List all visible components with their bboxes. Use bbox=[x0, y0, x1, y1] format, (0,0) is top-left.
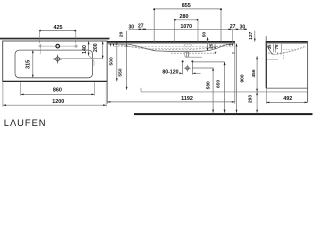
svg-text:1070: 1070 bbox=[181, 24, 193, 30]
dim 293 (vertical) bbox=[248, 92, 259, 113]
svg-text:855: 855 bbox=[182, 3, 191, 9]
dim 127 (right, vertical) bbox=[248, 31, 256, 42]
wall line (thick) bbox=[0, 38, 110, 40]
dim 425 bbox=[39, 25, 76, 43]
dim 650 (vertical) bbox=[216, 62, 226, 113]
svg-text:1192: 1192 bbox=[181, 96, 193, 102]
dashed inner contour 2 bbox=[115, 45, 229, 49]
outlet range verticals with dots bbox=[182, 60, 225, 74]
dim 1200 bbox=[3, 82, 106, 106]
svg-text:900: 900 bbox=[240, 74, 246, 82]
dashed siphon line + arrow bbox=[171, 52, 215, 54]
svg-text:25: 25 bbox=[208, 43, 214, 49]
top edge (thick) bbox=[107, 41, 235, 43]
svg-text:650: 650 bbox=[216, 80, 222, 88]
dim 50 (vertical at bowl) bbox=[201, 32, 208, 51]
dim 855 bbox=[153, 3, 222, 41]
rim bottom line bbox=[107, 43, 234, 45]
floor line (thick) bbox=[134, 113, 313, 115]
svg-text:280: 280 bbox=[180, 14, 189, 20]
dashed lines inside bbox=[283, 49, 295, 51]
svg-text:550: 550 bbox=[118, 68, 124, 76]
rim bottom bbox=[266, 43, 307, 45]
dashed pipe bbox=[283, 52, 285, 60]
dim 500 (vertical, right of plan) bbox=[109, 42, 118, 82]
bowl outline solid bbox=[108, 44, 234, 52]
svg-text:315: 315 bbox=[26, 60, 32, 69]
svg-text:127: 127 bbox=[248, 31, 254, 39]
dim 280 bbox=[174, 14, 198, 41]
svg-text:200: 200 bbox=[93, 43, 99, 52]
tiny dim block B bbox=[274, 44, 281, 55]
dashed chord bbox=[114, 46, 231, 48]
tiny dots bbox=[232, 52, 233, 53]
svg-text:20: 20 bbox=[118, 31, 124, 37]
small tick above rim bbox=[265, 36, 267, 41]
bowl front wall solid bbox=[266, 44, 273, 55]
tap hole right cross bbox=[74, 44, 78, 48]
svg-text:80-120: 80-120 bbox=[162, 69, 178, 75]
tiny dim block A bbox=[267, 44, 274, 55]
dim 25 (vertical inside bowl) bbox=[208, 43, 216, 49]
cabinet bottom bbox=[266, 87, 307, 89]
basin inner rounded rectangle bbox=[15, 50, 93, 78]
dim 200 (vertical) bbox=[93, 41, 104, 59]
80-120 pointer arrows bbox=[179, 72, 200, 74]
right side edge / extension bbox=[234, 43, 236, 104]
washbasin outer rectangle bbox=[3, 41, 107, 81]
svg-text:456: 456 bbox=[251, 69, 257, 77]
wall outlet symbol bbox=[184, 65, 191, 72]
drain pipe verticals bbox=[185, 51, 187, 57]
dim 580 (vertical) bbox=[206, 68, 215, 113]
svg-text:500: 500 bbox=[109, 57, 115, 65]
dim 140 (vertical) bbox=[82, 41, 94, 66]
dim 860 bbox=[21, 82, 95, 95]
dim row 30/27/1070/27/30 bbox=[110, 24, 247, 47]
wall line bbox=[307, 42, 309, 102]
bowl dashed curve bbox=[274, 46, 306, 55]
left side edge / extension bbox=[106, 43, 108, 104]
dim 850 (vertical) bbox=[236, 44, 246, 113]
svg-text:580: 580 bbox=[206, 81, 212, 89]
dim 492 bbox=[266, 88, 307, 103]
svg-text:75: 75 bbox=[274, 44, 279, 49]
tap holes connecting line bbox=[43, 45, 76, 47]
horizontal under bowl bbox=[185, 56, 202, 58]
waste fitting outline bbox=[184, 53, 189, 56]
svg-text:50: 50 bbox=[201, 32, 207, 38]
dim 1192 bbox=[107, 96, 235, 103]
tap hole left cross bbox=[38, 44, 42, 48]
svg-text:860: 860 bbox=[53, 88, 62, 94]
svg-text:35: 35 bbox=[267, 44, 272, 49]
svg-text:LΛUFEN: LΛUFEN bbox=[4, 118, 47, 128]
svg-text:140: 140 bbox=[82, 45, 88, 54]
faucet hole dashed bbox=[184, 44, 191, 47]
svg-text:30: 30 bbox=[129, 25, 135, 31]
dim 550 (vertical) bbox=[118, 31, 128, 90]
tap hole centre circle bbox=[56, 44, 60, 48]
svg-text:293: 293 bbox=[248, 95, 254, 103]
top edge (thick) bbox=[266, 41, 308, 43]
lower reference line (front bottom, runs into side view) bbox=[141, 91, 308, 93]
dim 315 (vertical, inside basin) bbox=[26, 50, 34, 78]
basin bottom edge (slightly darker) bbox=[3, 80, 107, 82]
svg-text:1200: 1200 bbox=[52, 99, 64, 105]
cabinet top line bbox=[267, 59, 278, 61]
svg-text:492: 492 bbox=[283, 96, 292, 102]
front edge bbox=[265, 42, 267, 88]
drain symbol (cross + diamond) bbox=[53, 55, 62, 64]
bowl outline dashed bbox=[118, 44, 227, 50]
dim 456 (vertical) bbox=[251, 56, 258, 92]
